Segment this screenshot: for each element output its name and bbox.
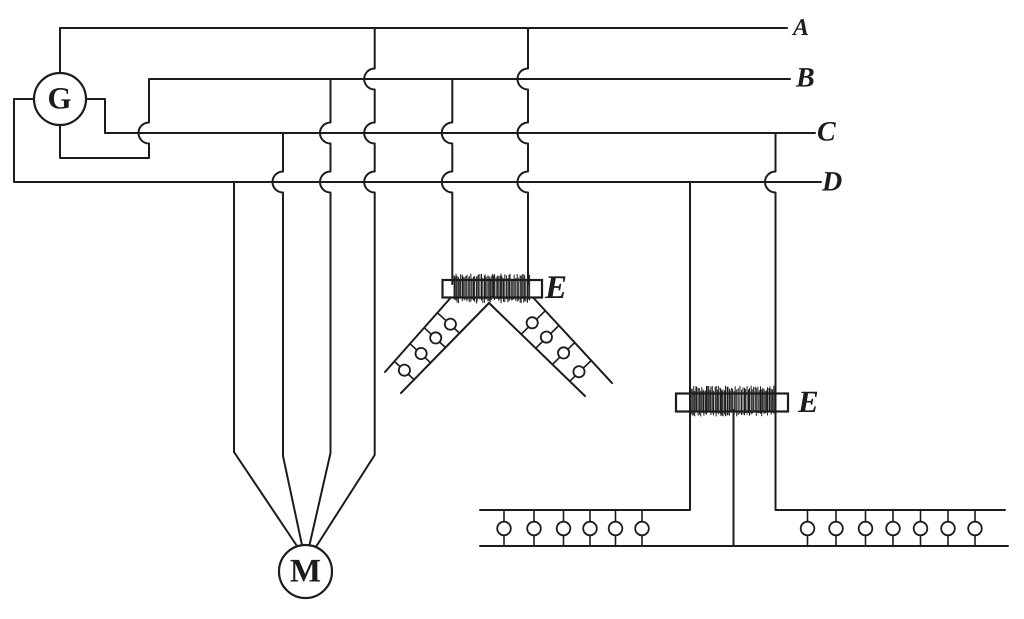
bus line C fed from G right terminal — [87, 99, 815, 133]
wire W8: bus C down, hop over D, through magnet E2 to right upper rail — [765, 133, 1005, 510]
wire W9: magnet E2 bottom lead down to lower rail — [733, 410, 735, 546]
label E of magnet E2 — [798, 392, 817, 412]
electromagnet E1 coil winding — [454, 274, 529, 304]
bottom track right roller rungs — [808, 510, 976, 546]
label A of bus A — [792, 19, 808, 35]
wire W4: bus A down to motor M, hops over B, C and D — [317, 28, 375, 546]
left inclined track rails — [385, 299, 489, 394]
bottom track right rollers — [801, 522, 982, 536]
left inclined track rollers — [399, 319, 456, 376]
electromagnet E2 coil winding — [690, 386, 776, 417]
bottom track left rollers — [497, 522, 649, 536]
motor M — [279, 545, 332, 598]
right inclined track rollers — [527, 317, 585, 377]
wire W5: bus B down to magnet E1, hops over C and D — [442, 79, 452, 284]
right inclined track rails — [489, 299, 612, 397]
wire W7: bus D down through magnet E2 to left upper rail of bottom track — [480, 182, 690, 510]
electromagnet E2 core bar — [676, 394, 788, 412]
electromagnet E1 core bar — [443, 280, 543, 298]
wire W1: bus D down to motor M — [234, 182, 297, 546]
bottom track left roller rungs — [504, 510, 642, 546]
label C of bus C — [818, 122, 836, 141]
generator G — [34, 73, 86, 125]
bus line B fed from G bottom terminal, hop over bus C — [60, 79, 790, 158]
label B of bus B — [796, 68, 814, 86]
wire W3: bus B down to motor M, hops over C and D — [310, 79, 331, 545]
wire: G top terminal riser — [59, 28, 61, 73]
wire W2: bus C down to motor M, hop over D — [273, 133, 303, 545]
bus line A — [60, 27, 787, 29]
label D of bus D — [822, 172, 842, 190]
label E of magnet E1 — [545, 276, 566, 298]
bus line D fed from G left terminal — [14, 99, 821, 182]
bottom track lower rail — [480, 545, 1008, 547]
wire W6: bus A down to magnet E1, hops over B, C and D — [518, 28, 529, 284]
